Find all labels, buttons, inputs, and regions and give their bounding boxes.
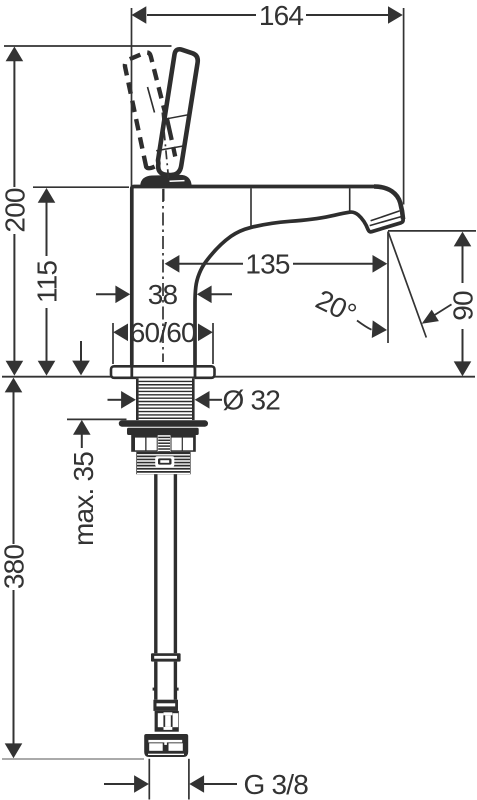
cartridge centre dash [163, 189, 165, 201]
spout corner emphasis [374, 187, 403, 220]
svg-text:38: 38 [148, 279, 178, 310]
dimension diameter 32 [108, 385, 281, 416]
fastening nut flange [127, 428, 199, 435]
base plate 60x60 [111, 366, 215, 378]
threaded tail with hose seat [136, 452, 190, 475]
svg-text:G 3/8: G 3/8 [244, 769, 309, 800]
threaded shank [136, 378, 195, 420]
connector thread [153, 700, 178, 711]
handle lever (alternate position, dashed) [125, 52, 175, 168]
aerator end seams [370, 211, 402, 226]
reference line at inlet [2, 758, 144, 760]
connector nut [144, 734, 188, 757]
hidden lever edge [148, 87, 176, 157]
pipe collar [151, 653, 181, 661]
supply pipe (upper) [156, 474, 176, 653]
dimension 90 (outlet height) [388, 231, 477, 376]
svg-text:380: 380 [0, 545, 29, 590]
svg-text:90: 90 [447, 291, 477, 321]
dimension max. 35 (mounting thickness) [67, 419, 127, 546]
spout joint line left [250, 188, 252, 226]
dimension 164 (overall width) [132, 0, 404, 205]
dimension 200 (height to handle top) [0, 46, 171, 376]
handle joint lines [156, 115, 189, 151]
faucet body and spout outline [132, 187, 403, 368]
dimension G 3/8 (thread) [104, 759, 308, 800]
supply pipe (lower) [153, 662, 179, 700]
connector body [155, 711, 179, 732]
svg-text:Ø 32: Ø 32 [223, 385, 281, 416]
dimension 135 (spout reach) [165, 249, 388, 280]
body centre line [162, 189, 164, 378]
svg-text:115: 115 [31, 261, 62, 303]
angle 20 deg (spout outlet) [311, 232, 451, 344]
dimension 115 (spout height) [31, 187, 129, 375]
mounting surface pointer [72, 341, 90, 375]
svg-text:164: 164 [259, 0, 304, 31]
handle axis centre line [162, 113, 168, 179]
spout joint line right [349, 188, 351, 211]
svg-text:200: 200 [0, 188, 30, 233]
handle mount [142, 176, 191, 185]
mounting surface line [2, 376, 475, 378]
svg-text:135: 135 [245, 249, 290, 280]
dimension 60/60 (base plate) [113, 317, 213, 364]
svg-text:60/60: 60/60 [130, 317, 196, 348]
washer [119, 420, 208, 426]
fastening nut [131, 435, 196, 453]
handle lever (solid) [158, 49, 198, 175]
dimension 38 (body width) [96, 279, 232, 310]
dimension 380 (supply length) [0, 378, 29, 759]
svg-text:max. 35: max. 35 [68, 452, 99, 546]
